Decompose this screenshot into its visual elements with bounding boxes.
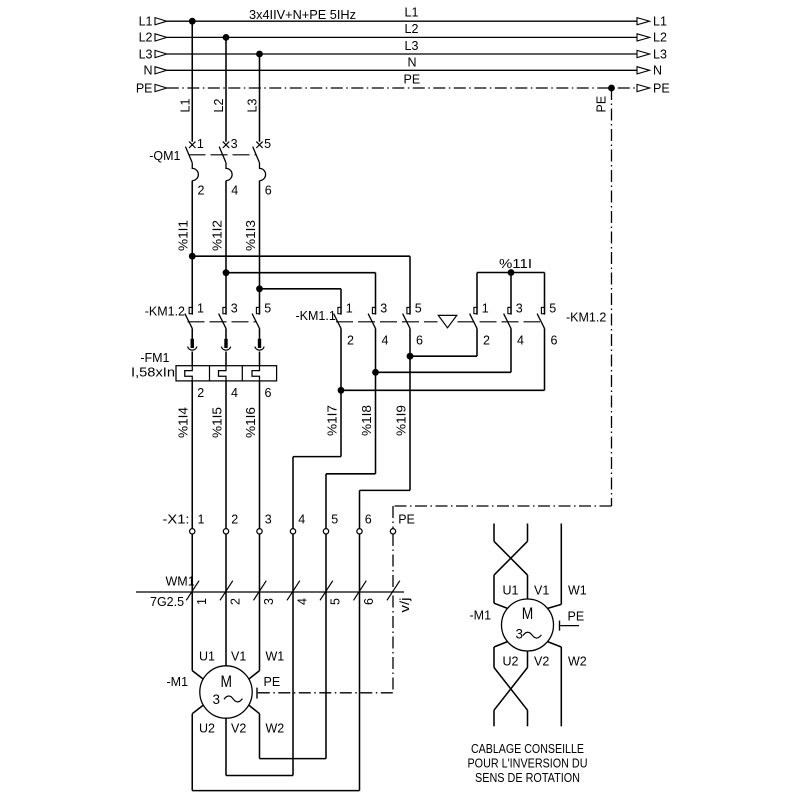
svg-text:PE: PE	[136, 81, 153, 95]
svg-text:V1: V1	[534, 584, 549, 598]
inset motor U2 lead	[494, 642, 508, 648]
svg-text:WM1: WM1	[166, 575, 195, 589]
svg-text:6: 6	[265, 386, 272, 400]
wire M1 PE link	[258, 692, 393, 694]
svg-text:PE: PE	[264, 675, 281, 689]
svg-text:2: 2	[197, 386, 204, 400]
svg-text:N: N	[408, 56, 417, 70]
svg-text:3: 3	[262, 598, 276, 605]
node L2 left terminal arrow	[155, 34, 167, 41]
svg-text:PE: PE	[398, 513, 415, 527]
svg-text:v/j: v/j	[398, 598, 412, 613]
svg-text:4: 4	[231, 184, 238, 198]
svg-text:2: 2	[483, 334, 490, 348]
inset motor W1 lead	[547, 604, 561, 608]
svg-text:6: 6	[362, 598, 376, 605]
wire 6 X1 down	[359, 534, 361, 791]
contactor KM1.2 left pole contact 3	[219, 307, 226, 328]
svg-text:N: N	[653, 64, 662, 78]
svg-text:L1: L1	[653, 15, 667, 29]
wire %1I9 to X1	[409, 356, 411, 490]
wire %1I3 from QM1 down	[259, 181, 261, 315]
svg-text:5: 5	[549, 302, 556, 316]
wire 4 X1 down	[292, 534, 294, 776]
svg-text:7G2.5: 7G2.5	[150, 595, 184, 609]
svg-text:L1: L1	[405, 6, 419, 20]
svg-text:3: 3	[231, 137, 238, 151]
svg-text:%1I2: %1I2	[210, 220, 224, 251]
breaker QM1 pole 5/6	[253, 142, 266, 181]
wire V2 to core 4	[226, 775, 293, 777]
svg-text:U1: U1	[503, 584, 519, 598]
wire L2 bus	[167, 36, 637, 38]
inset motor W2 lead	[547, 642, 561, 648]
cable core tick wire 1	[186, 581, 199, 601]
svg-text:-KM1.2: -KM1.2	[566, 311, 606, 325]
svg-text:L2: L2	[212, 99, 226, 113]
node N right terminal arrow	[637, 67, 650, 74]
cable core tick wire 4	[287, 581, 300, 601]
contactor KM1.2 left pole contact 1	[185, 307, 192, 328]
wire 101 branch to KM1.1 pole 5	[192, 255, 410, 257]
node L2 right terminal arrow	[637, 34, 650, 41]
svg-text:W1: W1	[568, 584, 587, 598]
svg-text:4: 4	[296, 598, 310, 605]
cable core tick wire 3	[254, 581, 267, 601]
wire KM1.2 output with connector symbol	[255, 328, 264, 365]
FM1 thermal element pole 2	[185, 366, 193, 381]
node L3 left terminal arrow	[155, 50, 167, 57]
svg-text:%1I7: %1I7	[325, 405, 339, 436]
junction node 103 branch	[256, 285, 263, 292]
wire net 110 bracket over KM1.2	[477, 272, 545, 274]
junction crossover node 109	[407, 353, 414, 360]
junction L3 tap	[256, 51, 263, 58]
wire 102 branch to KM1.1 pole 3	[226, 272, 376, 274]
cable core tick wire v/j	[387, 581, 400, 601]
wire L1 bus	[167, 20, 637, 22]
wire PE X1 to motor	[392, 534, 394, 693]
cable core tick wire 2	[220, 581, 233, 601]
svg-text:2: 2	[197, 184, 204, 198]
svg-text:-FM1: -FM1	[140, 351, 169, 365]
inset wire stubs bottom	[493, 710, 495, 726]
contactor KM1.2 left pole contact 5	[252, 307, 259, 328]
motor M1 terminal W1 lead	[249, 671, 260, 680]
junction crossover node 108	[372, 369, 379, 376]
svg-text:6: 6	[551, 334, 558, 348]
cable core tick wire 6	[354, 581, 367, 601]
wire W2 to core 5	[260, 758, 327, 760]
svg-text:U2: U2	[199, 722, 215, 736]
svg-text:4: 4	[231, 386, 238, 400]
wire KM1.1-4 to KM1.2-4 crossover	[375, 328, 377, 372]
svg-text:-X1:: -X1:	[163, 513, 190, 527]
contactor KM1.1 pole contact 3/4	[368, 307, 375, 328]
wire %1I5 FM1 to X1	[225, 381, 227, 529]
motor M1 terminal U2 lead	[192, 705, 203, 714]
svg-text:4: 4	[517, 334, 524, 348]
svg-text:%1I3: %1I3	[244, 220, 258, 251]
svg-text:5: 5	[331, 513, 338, 527]
inset motor U1 lead	[494, 603, 508, 608]
svg-text:3: 3	[516, 627, 524, 642]
mechanical interlock symbol	[438, 315, 457, 327]
svg-text:2: 2	[231, 513, 238, 527]
svg-text:1: 1	[346, 302, 353, 316]
motor M1 terminal W2 lead	[249, 705, 260, 714]
svg-text:%1I8: %1I8	[360, 405, 374, 436]
svg-text:M: M	[522, 604, 534, 623]
junction L2 tap	[223, 34, 230, 41]
svg-text:PE: PE	[653, 81, 670, 95]
node L1 right terminal arrow	[637, 18, 650, 25]
svg-text:V1: V1	[231, 650, 246, 664]
svg-text:V2: V2	[534, 655, 549, 669]
svg-text:L1: L1	[179, 99, 193, 113]
svg-text:%1I1: %1I1	[177, 220, 191, 251]
svg-text:W2: W2	[266, 722, 285, 736]
wire KM1.2 output with connector symbol	[221, 328, 230, 365]
FM1 thermal element pole 4	[219, 366, 227, 381]
svg-text:3x4IIV+N+PE 5IHz: 3x4IIV+N+PE 5IHz	[249, 7, 356, 22]
inset wire stubs top	[493, 524, 495, 542]
junction L1 tap	[189, 18, 196, 25]
inset motor M1 circle	[502, 599, 554, 651]
svg-text:-M1: -M1	[167, 675, 189, 689]
wire N bus	[167, 69, 637, 71]
svg-text:1: 1	[197, 513, 204, 527]
wire L1 tap down to QM1	[191, 21, 193, 142]
terminal X1:1	[190, 529, 195, 534]
wire L2 tap down to QM1	[225, 37, 227, 141]
svg-text:5: 5	[264, 302, 271, 316]
svg-text:L2: L2	[653, 31, 667, 45]
junction PE tap right	[608, 85, 615, 92]
svg-text:I,58xIn: I,58xIn	[131, 365, 175, 379]
svg-text:L2: L2	[405, 22, 419, 36]
terminal X1:PE	[390, 529, 395, 534]
wire %1I4 FM1 to X1	[191, 381, 193, 529]
svg-text:N: N	[143, 64, 152, 78]
motor M1 PE terminal	[256, 688, 258, 699]
svg-text:%11I: %11I	[499, 257, 532, 271]
terminal X1:4	[290, 529, 295, 534]
contactor KM1.1 pole contact 5/6	[403, 307, 410, 328]
overload relay FM1 box	[176, 366, 277, 381]
svg-text:3: 3	[516, 302, 523, 316]
wire 1 X1 to motor U1	[191, 534, 193, 671]
contactor KM1.2 right pole contact 3/4	[504, 307, 511, 328]
wire %1I6 FM1 to X1	[259, 381, 261, 529]
junction crossover node 107	[338, 387, 345, 394]
svg-text:L1: L1	[139, 15, 153, 29]
svg-text:PE: PE	[404, 73, 421, 87]
wire 3 X1 to motor W1	[259, 534, 261, 671]
svg-text:L3: L3	[653, 47, 667, 61]
svg-text:5: 5	[264, 137, 271, 151]
svg-text:1: 1	[197, 137, 204, 151]
wire PE return horizontal	[393, 505, 612, 507]
svg-text:3: 3	[231, 302, 238, 316]
wire %1I8 to X1	[375, 372, 377, 474]
terminal X1:2	[223, 529, 228, 534]
svg-text:L3: L3	[139, 47, 153, 61]
svg-text:%1I6: %1I6	[244, 407, 258, 438]
node L1 left terminal arrow	[155, 18, 167, 25]
KM1.1-KM1.2 mechanical link	[336, 321, 438, 323]
inset PE terminal	[559, 621, 561, 631]
svg-text:CABLAGE CONSEILLE: CABLAGE CONSEILLE	[471, 742, 584, 756]
node PE left terminal arrow	[155, 84, 167, 91]
motor M1 terminal V2 lead	[225, 718, 227, 775]
motor M1 terminal U1 lead	[192, 671, 203, 680]
wire 5 X1 down	[325, 534, 327, 759]
inset motor V2 lead	[527, 651, 529, 668]
wire L3 tap down to QM1	[259, 54, 261, 142]
svg-text:1: 1	[482, 302, 489, 316]
wire %1I7 to X1	[340, 390, 342, 456]
svg-text:3: 3	[380, 302, 387, 316]
svg-text:-KM1.1: -KM1.1	[296, 309, 336, 323]
svg-text:L3: L3	[246, 99, 260, 113]
svg-text:%1I9: %1I9	[394, 405, 408, 436]
svg-text:L3: L3	[405, 39, 419, 53]
inset crossed wires top	[494, 541, 528, 575]
wire KM1.1-6 to KM1.2-2 crossover	[409, 328, 411, 356]
contactor KM1.1 pole contact 1/2	[334, 307, 341, 328]
wire L3 bus	[167, 53, 637, 55]
svg-text:W1: W1	[266, 650, 285, 664]
svg-text:U1: U1	[199, 650, 215, 664]
inset crossed wires bottom	[494, 668, 528, 711]
junction node 101 branch	[189, 253, 196, 260]
cable core tick wire 5	[320, 581, 333, 601]
wire U2 to core 6	[192, 790, 359, 792]
node PE right terminal arrow	[637, 84, 650, 91]
junction node 102 branch	[223, 269, 230, 276]
svg-text:3: 3	[265, 513, 272, 527]
wire KM1.2 output with connector symbol	[188, 328, 197, 365]
junction node 110	[508, 269, 515, 276]
svg-text:PE: PE	[568, 610, 585, 624]
svg-text:POUR L'INVERSION DU: POUR L'INVERSION DU	[468, 756, 588, 770]
svg-text:-M1: -M1	[470, 609, 492, 623]
svg-text:W2: W2	[568, 655, 587, 669]
svg-text:6: 6	[265, 184, 272, 198]
terminal X1:5	[323, 529, 328, 534]
wire PE drop right side	[611, 88, 613, 506]
svg-text:2: 2	[347, 334, 354, 348]
svg-text:%1I5: %1I5	[210, 407, 224, 438]
svg-text:3: 3	[213, 692, 221, 707]
terminal X1:6	[357, 529, 362, 534]
wire %1I2 from QM1 down	[225, 181, 227, 315]
breaker QM1 pole 1/2	[185, 142, 198, 181]
wire PE down to X1	[392, 506, 394, 529]
QM1 mechanical link	[189, 154, 257, 156]
svg-text:4: 4	[298, 513, 305, 527]
svg-text:5: 5	[415, 302, 422, 316]
svg-text:%1I4: %1I4	[177, 407, 191, 438]
svg-text:6: 6	[416, 334, 423, 348]
wire %1I1 from QM1 down	[191, 181, 193, 315]
wire 2 X1 to motor V1	[225, 534, 227, 666]
svg-text:SENS DE ROTATION: SENS DE ROTATION	[475, 771, 580, 785]
svg-text:U2: U2	[503, 655, 519, 669]
wire 103 branch to KM1.1 pole 1	[260, 288, 342, 290]
svg-text:PE: PE	[595, 96, 609, 113]
svg-text:V2: V2	[231, 722, 246, 736]
breaker QM1 pole 3/4	[219, 142, 232, 181]
svg-text:6: 6	[365, 513, 372, 527]
cable WM1 line	[136, 591, 404, 593]
svg-text:-QM1: -QM1	[149, 149, 180, 163]
svg-text:-KM1.2: -KM1.2	[145, 305, 185, 319]
contactor KM1.2 right pole contact 1/2	[470, 307, 477, 328]
wire KM1.1-2 to KM1.2-6 crossover	[340, 328, 342, 390]
svg-text:1: 1	[195, 598, 209, 605]
svg-text:4: 4	[382, 334, 389, 348]
terminal X1:3	[257, 529, 262, 534]
wire PE bus	[167, 87, 637, 89]
svg-text:2: 2	[229, 598, 243, 605]
KM1.2 left mechanical link	[188, 321, 256, 323]
node N left terminal arrow	[155, 67, 167, 74]
contactor KM1.2 right pole contact 5/6	[537, 307, 544, 328]
svg-text:1: 1	[197, 302, 204, 316]
svg-text:M: M	[221, 672, 233, 691]
motor M1 circle	[200, 666, 252, 718]
svg-text:L2: L2	[139, 31, 153, 45]
inset wires to motor	[493, 575, 495, 603]
svg-text:5: 5	[329, 598, 343, 605]
node L3 right terminal arrow	[637, 50, 650, 57]
FM1 thermal element pole 6	[252, 366, 260, 381]
